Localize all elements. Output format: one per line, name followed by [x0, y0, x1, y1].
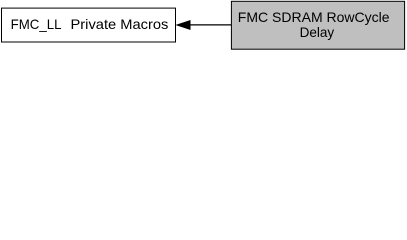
background — [0, 0, 407, 51]
edge wire (shaft) — [190, 24, 232, 26]
node FMC_LL Private Macros (box) — [2, 8, 176, 42]
svg-text:FMC SDRAM RowCycle: FMC SDRAM RowCycle — [238, 9, 390, 25]
svg-text:Delay: Delay — [300, 24, 335, 40]
svg-text:FMC_LL: FMC_LL — [11, 16, 62, 32]
edge arrowhead — [177, 21, 190, 30]
node FMC SDRAM RowCycle Delay (box, current node, grey) — [231, 1, 404, 49]
svg-text:Private Macros: Private Macros — [71, 16, 169, 32]
